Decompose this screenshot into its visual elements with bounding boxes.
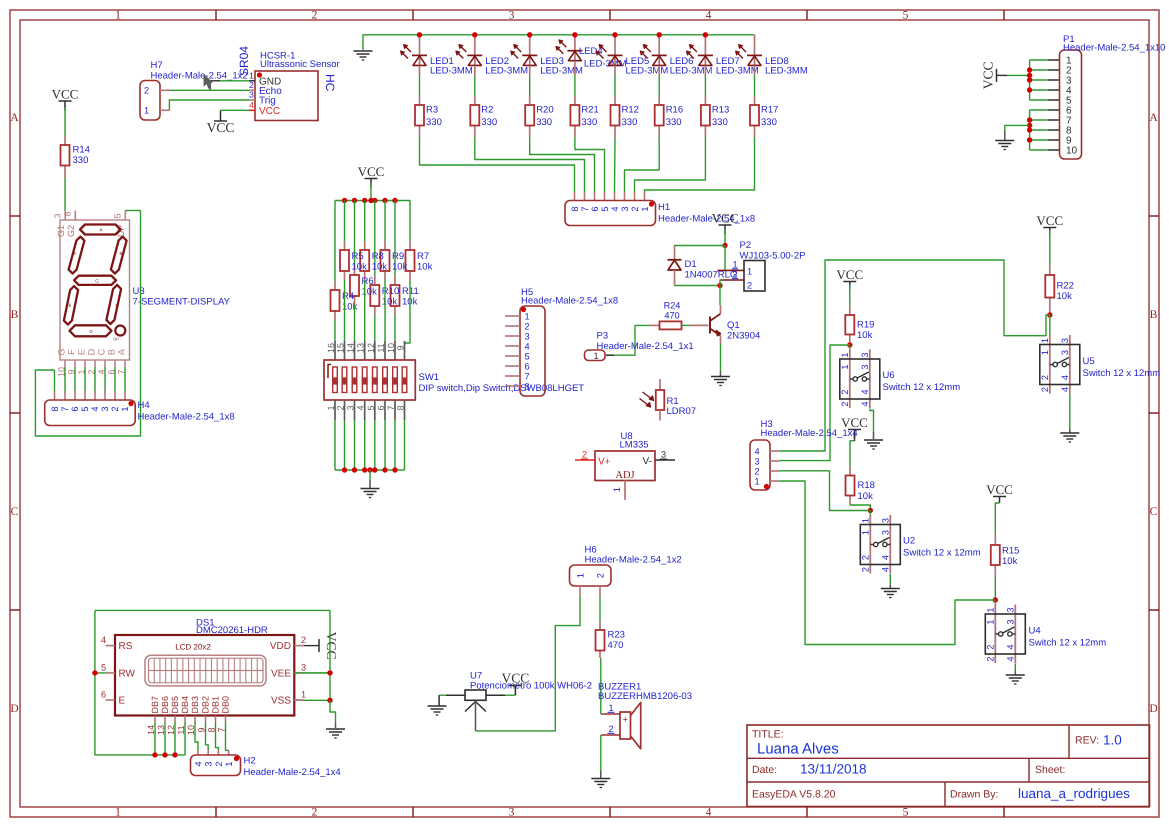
junction dot <box>382 467 387 472</box>
wire VCC to R18 <box>850 441 855 467</box>
svg-text:1.0: 1.0 <box>1103 733 1122 748</box>
svg-text:5: 5 <box>101 662 106 672</box>
svg-text:VCC: VCC <box>502 671 530 686</box>
svg-text:VCC: VCC <box>259 106 280 117</box>
LED LED8 <box>754 35 756 66</box>
svg-text:10k: 10k <box>382 297 398 308</box>
svg-text:2: 2 <box>840 401 850 406</box>
svg-text:1: 1 <box>224 761 234 766</box>
svg-text:2: 2 <box>110 406 120 411</box>
wire R21 to H1 pin 5 <box>575 137 605 192</box>
svg-text:1: 1 <box>608 703 613 713</box>
junction dot <box>1027 127 1032 132</box>
svg-text:Header-Male-2.54_1x4: Header-Male-2.54_1x4 <box>761 428 858 439</box>
svg-text:Switch 12 x 12mm: Switch 12 x 12mm <box>883 382 961 393</box>
svg-text:5: 5 <box>903 10 909 22</box>
switch U5 <box>1049 335 1051 394</box>
junction dot <box>1027 73 1032 78</box>
wire VCC branch to P2 pin 1 <box>724 246 726 271</box>
svg-text:4: 4 <box>860 401 870 406</box>
svg-text:1: 1 <box>860 530 870 535</box>
svg-text:Potenciometro 100k WH06-2: Potenciometro 100k WH06-2 <box>470 681 592 692</box>
svg-text:VSS: VSS <box>271 696 291 707</box>
svg-text:5: 5 <box>113 213 123 218</box>
svg-text:R19: R19 <box>857 320 874 331</box>
svg-text:7: 7 <box>580 206 590 211</box>
wire VCC to R19 <box>849 285 851 306</box>
svg-text:Ultrassonic Sensor: Ultrassonic Sensor <box>260 59 340 70</box>
connector P2 <box>718 269 745 271</box>
svg-text:U5: U5 <box>1083 356 1095 367</box>
svg-text:14: 14 <box>346 343 356 353</box>
wire U7 left to ground <box>438 695 440 705</box>
wire junction to U2 <box>869 511 871 516</box>
LED LED3 <box>529 35 531 66</box>
junction dot <box>1027 77 1032 82</box>
svg-text:1: 1 <box>1040 350 1050 355</box>
svg-text:4: 4 <box>1060 375 1070 380</box>
svg-text:8: 8 <box>63 211 73 216</box>
svg-text:10k: 10k <box>372 262 388 273</box>
power flag VCC (U7) <box>514 686 516 696</box>
svg-text:2N3904: 2N3904 <box>727 331 760 342</box>
svg-text:330: 330 <box>666 117 682 128</box>
svg-text:LED-3MM: LED-3MM <box>430 66 473 77</box>
svg-text:C: C <box>97 348 107 355</box>
junction dot <box>392 467 397 472</box>
wire DB3-DB0 to H2 <box>195 722 198 750</box>
svg-text:Date:: Date: <box>752 764 777 776</box>
svg-text:10k: 10k <box>392 262 408 273</box>
svg-text:8: 8 <box>50 406 60 411</box>
resistor R20 <box>529 65 531 75</box>
switch U4 <box>994 605 996 664</box>
ground (LCD) <box>326 728 345 730</box>
svg-text:3: 3 <box>1060 338 1070 343</box>
svg-text:D: D <box>87 348 97 355</box>
wire R20 to H1 pin 6 <box>530 137 595 192</box>
svg-text:10k: 10k <box>858 491 874 502</box>
svg-text:4: 4 <box>754 447 759 457</box>
ground (buzzer) <box>591 778 610 780</box>
svg-text:DB0: DB0 <box>221 696 231 714</box>
svg-text:R6: R6 <box>362 276 374 287</box>
junction dot <box>362 467 367 472</box>
ground (U5) <box>1060 432 1079 434</box>
ground (P1) <box>995 140 1014 142</box>
svg-text:1: 1 <box>747 267 752 277</box>
switch U2 <box>869 515 871 574</box>
svg-text:2: 2 <box>840 389 850 394</box>
wire SW1 bottom bus <box>335 469 405 471</box>
svg-text:10k: 10k <box>362 287 378 298</box>
junction dot <box>993 597 998 602</box>
resistor R9 <box>384 241 386 250</box>
svg-text:R12: R12 <box>622 105 639 116</box>
wire R3 to H1 pin 8 <box>420 137 575 192</box>
svg-text:VCC: VCC <box>1036 213 1063 228</box>
svg-text:EasyEDA V5.8.20: EasyEDA V5.8.20 <box>752 789 836 801</box>
wire junction to U4 pin 1 <box>994 600 996 605</box>
svg-text:R3: R3 <box>426 105 438 116</box>
LED LED7 <box>704 35 706 66</box>
svg-text:1: 1 <box>120 406 130 411</box>
svg-text:DP: DP <box>113 337 119 342</box>
svg-text:REV:: REV: <box>1075 735 1099 747</box>
svg-text:E: E <box>119 696 126 707</box>
svg-text:RW: RW <box>119 668 136 679</box>
resistor R21 <box>574 61 576 75</box>
svg-text:6: 6 <box>590 206 600 211</box>
junction dot <box>92 670 97 675</box>
junction dot <box>342 198 347 203</box>
svg-text:A: A <box>1149 112 1158 124</box>
svg-text:1: 1 <box>985 607 995 612</box>
switch U6 <box>849 345 851 350</box>
resistor R13 <box>704 65 706 75</box>
svg-text:Header-Male-2.54_1x8: Header-Male-2.54_1x8 <box>521 296 618 307</box>
wire R17 to H1 pin 1 <box>645 137 755 192</box>
junction dot <box>572 32 577 37</box>
power flag VCC (P1) <box>996 69 998 82</box>
svg-text:3: 3 <box>1005 619 1015 624</box>
svg-text:LED-3MM: LED-3MM <box>485 66 528 77</box>
junction dot <box>612 32 617 37</box>
svg-text:H7: H7 <box>151 60 163 71</box>
svg-text:B: B <box>119 251 122 256</box>
resistor R11 <box>394 276 396 285</box>
svg-text:1: 1 <box>840 352 850 357</box>
junction dot <box>352 467 357 472</box>
wire P1 pins 1-5 bus <box>1030 59 1048 61</box>
junction dot <box>1027 67 1032 72</box>
junction dot <box>868 508 873 513</box>
svg-text:3: 3 <box>249 90 254 100</box>
svg-text:2: 2 <box>596 573 606 578</box>
svg-text:330: 330 <box>761 117 777 128</box>
power flag VCC (LCD VDD) <box>318 639 320 652</box>
svg-text:R18: R18 <box>858 480 875 491</box>
svg-text:A: A <box>10 112 19 124</box>
ground (LED bus) <box>354 50 373 52</box>
svg-text:1: 1 <box>576 573 586 578</box>
svg-text:F: F <box>74 251 77 256</box>
svg-text:10k: 10k <box>857 330 873 341</box>
svg-text:2: 2 <box>732 269 737 279</box>
svg-text:5: 5 <box>80 406 90 411</box>
svg-text:R14: R14 <box>73 145 90 156</box>
svg-text:VCC: VCC <box>836 267 863 282</box>
svg-text:Luana Alves: Luana Alves <box>757 741 839 758</box>
svg-text:DB7: DB7 <box>150 696 160 714</box>
svg-text:C: C <box>1150 506 1158 518</box>
svg-text:330: 330 <box>712 117 728 128</box>
svg-text:5: 5 <box>600 206 610 211</box>
svg-text:SW1: SW1 <box>419 372 440 383</box>
resistor R22 <box>1049 265 1051 275</box>
svg-text:11: 11 <box>376 343 386 352</box>
svg-text:DB3: DB3 <box>190 696 200 714</box>
junction dot <box>1027 117 1032 122</box>
wire VCC to R14 <box>64 107 66 136</box>
svg-text:10k: 10k <box>1002 556 1018 567</box>
svg-text:Drawn By:: Drawn By: <box>950 789 998 801</box>
wire junction to U5 pin 1 <box>1049 315 1051 335</box>
junction dot <box>372 467 377 472</box>
svg-text:R20: R20 <box>536 105 553 116</box>
7-segment display U3 <box>64 211 66 221</box>
svg-text:VEE: VEE <box>271 668 291 679</box>
wire bus to ground <box>369 470 371 480</box>
wire junction to H3 pin 3 <box>780 345 850 461</box>
svg-text:10k: 10k <box>352 262 368 273</box>
wire R23 to buzzer pin 1 <box>600 658 602 714</box>
svg-text:U2: U2 <box>903 536 915 547</box>
junction dot <box>362 198 367 203</box>
svg-text:330: 330 <box>536 117 552 128</box>
ground (U2) <box>881 588 900 590</box>
header P3 <box>606 354 614 356</box>
resistor R8 <box>364 241 366 250</box>
svg-text:G1: G1 <box>56 225 66 237</box>
svg-text:DIP switch,Dip Switch,DSWB08LH: DIP switch,Dip Switch,DSWB08LHGET <box>419 383 585 394</box>
svg-text:H2: H2 <box>244 756 256 767</box>
junction dot <box>152 752 157 757</box>
wire bus to R11 <box>394 201 396 277</box>
svg-text:2: 2 <box>1040 375 1050 380</box>
wire bus to R10 <box>374 201 376 277</box>
svg-text:3: 3 <box>509 10 515 22</box>
svg-text:H4: H4 <box>138 400 150 411</box>
svg-text:G: G <box>57 348 67 355</box>
svg-text:BUZZERHMB1206-03: BUZZERHMB1206-03 <box>598 691 692 702</box>
svg-text:10: 10 <box>1066 146 1078 157</box>
svg-text:1: 1 <box>115 807 121 819</box>
svg-text:330: 330 <box>73 155 89 166</box>
resistor R19 <box>849 306 851 315</box>
svg-text:2: 2 <box>985 644 995 649</box>
svg-text:E: E <box>68 303 71 308</box>
svg-text:VCC: VCC <box>986 482 1013 497</box>
wire resistor bank top bus <box>335 200 410 202</box>
junction dot <box>367 467 372 472</box>
LCD display DS1 <box>115 635 294 716</box>
svg-text:+: + <box>623 715 628 725</box>
svg-text:1: 1 <box>985 619 995 624</box>
wire U4 pin 4 to ground <box>1014 664 1016 672</box>
svg-text:Header-Male-2.54_1x8: Header-Male-2.54_1x8 <box>138 412 235 423</box>
svg-text:4: 4 <box>1060 387 1070 392</box>
junction dot <box>657 32 662 37</box>
wire bus to R6 <box>354 201 356 267</box>
svg-text:VDD: VDD <box>270 641 291 652</box>
svg-text:D1: D1 <box>685 259 697 270</box>
svg-text:DB5: DB5 <box>170 696 180 714</box>
svg-text:2: 2 <box>860 567 870 572</box>
svg-text:4: 4 <box>524 342 529 352</box>
wire R7 jog to SW1 pin 9 <box>405 280 411 345</box>
ultrasonic sensor HCSR-1 <box>255 71 318 121</box>
svg-text:U3: U3 <box>133 286 145 297</box>
svg-text:R13: R13 <box>712 105 729 116</box>
resistor R2 <box>474 65 476 75</box>
svg-text:2: 2 <box>608 724 613 734</box>
wire R18 to junction <box>850 505 870 511</box>
svg-text:Header-Male-2.54_1x1: Header-Male-2.54_1x1 <box>597 341 694 352</box>
wire R13 to H1 pin 2 <box>635 137 706 192</box>
wire junction to D1 top <box>675 245 726 248</box>
svg-text:R5: R5 <box>352 251 364 262</box>
junction dot <box>162 752 167 757</box>
svg-text:WJ103-5.00-2P: WJ103-5.00-2P <box>740 251 806 262</box>
svg-text:3: 3 <box>509 807 515 819</box>
svg-text:2: 2 <box>524 322 529 332</box>
wire VCC to P1 bus <box>997 74 1008 76</box>
junction dot <box>392 198 397 203</box>
svg-text:3: 3 <box>754 457 759 467</box>
LED LED1 <box>419 35 421 66</box>
svg-text:Header-Male-2.54_1x2: Header-Male-2.54_1x2 <box>151 71 248 82</box>
svg-text:3: 3 <box>524 332 529 342</box>
svg-text:10k: 10k <box>417 262 433 273</box>
junction dot <box>327 698 332 703</box>
svg-text:4: 4 <box>880 555 890 560</box>
svg-text:R8: R8 <box>372 251 384 262</box>
junction dot <box>722 243 727 248</box>
title block <box>747 725 1150 807</box>
svg-text:VCC: VCC <box>981 62 996 90</box>
svg-text:V-: V- <box>643 456 652 467</box>
photoresistor R1 <box>659 379 661 390</box>
ground (SW1) <box>361 488 380 490</box>
wire Trig to H7 pin 1 <box>160 109 169 111</box>
wire bus to R4 <box>334 201 336 282</box>
wire DB7-DB5 to bottom bus <box>154 722 156 755</box>
wire R24 to P3 <box>614 325 650 355</box>
junction dot <box>342 467 347 472</box>
header H7 <box>140 81 160 121</box>
wire junction to Q1 collector <box>719 286 721 306</box>
svg-text:LM335: LM335 <box>620 440 649 451</box>
junction dot <box>327 670 332 675</box>
svg-text:DMC20261-HDR: DMC20261-HDR <box>196 625 268 636</box>
wire Echo to H7 pin 2 <box>160 89 169 91</box>
svg-text:R24: R24 <box>664 301 681 311</box>
transistor Q1 <box>720 305 722 314</box>
header H1 <box>574 192 576 201</box>
wire VCC pin to flag <box>221 109 250 112</box>
svg-text:5: 5 <box>524 352 529 362</box>
svg-text:D: D <box>1149 703 1157 715</box>
svg-text:330: 330 <box>622 117 638 128</box>
wire D1 bottom to junction <box>675 285 721 287</box>
svg-text:1: 1 <box>732 260 737 270</box>
wire VCC to R22 <box>1049 230 1051 265</box>
LED LED5 <box>614 35 616 66</box>
svg-text:10k: 10k <box>1057 291 1073 302</box>
LED LED6 <box>658 35 660 66</box>
svg-text:3: 3 <box>204 761 214 766</box>
svg-text:U4: U4 <box>1029 626 1041 637</box>
wire SW1 pins to bottom bus <box>334 400 336 420</box>
header H2 <box>191 755 241 776</box>
svg-text:4: 4 <box>610 206 620 211</box>
svg-text:2: 2 <box>1040 387 1050 392</box>
svg-text:1: 1 <box>301 690 306 700</box>
junction dot <box>1047 312 1052 317</box>
resistor R14 <box>64 136 66 145</box>
junction dot <box>372 198 377 203</box>
svg-text:13/11/2018: 13/11/2018 <box>800 762 867 777</box>
svg-text:Header-Male-2.54_1x4: Header-Male-2.54_1x4 <box>244 767 341 778</box>
svg-text:DB2: DB2 <box>201 696 211 714</box>
svg-text:4: 4 <box>880 567 890 572</box>
mouse cursor artifact <box>204 75 212 89</box>
svg-text:1: 1 <box>612 487 622 492</box>
resistor R17 <box>754 65 756 75</box>
ground (Q1) <box>711 376 730 378</box>
svg-text:470: 470 <box>608 640 624 651</box>
svg-text:Q1: Q1 <box>727 320 740 331</box>
svg-text:R16: R16 <box>666 105 683 116</box>
svg-text:Sheet:: Sheet: <box>1035 764 1065 776</box>
svg-text:9: 9 <box>396 345 406 350</box>
svg-text:G: G <box>95 279 99 284</box>
svg-text:4: 4 <box>90 406 100 411</box>
LED LED4 <box>574 35 576 61</box>
svg-text:2: 2 <box>860 555 870 560</box>
svg-text:TITLE:: TITLE: <box>752 729 784 741</box>
svg-text:3: 3 <box>661 450 666 460</box>
svg-text:3: 3 <box>620 206 630 211</box>
svg-text:5: 5 <box>903 807 909 819</box>
wire junction to P2 pin 2 <box>720 280 721 286</box>
wire R16 to H1 pin 3 <box>625 137 660 192</box>
svg-text:B: B <box>11 309 19 321</box>
svg-text:3: 3 <box>301 662 306 672</box>
wire VDD to VCC flag <box>304 645 319 647</box>
svg-text:3: 3 <box>100 406 110 411</box>
wire VCC to bus <box>370 183 372 201</box>
svg-text:LED-3MM: LED-3MM <box>716 66 759 77</box>
svg-text:3: 3 <box>880 530 890 535</box>
svg-text:16: 16 <box>326 343 336 353</box>
svg-text:3: 3 <box>53 213 63 218</box>
svg-text:10: 10 <box>386 343 396 353</box>
temperature sensor U8 LM335 <box>595 451 655 481</box>
svg-text:VCC: VCC <box>358 164 385 179</box>
svg-text:4: 4 <box>249 100 254 110</box>
junction dot <box>703 32 708 37</box>
wire U2 pin 4 to ground <box>889 574 891 585</box>
svg-text:4: 4 <box>706 10 712 22</box>
power flag VCC (HCSR) <box>220 111 222 121</box>
svg-text:F: F <box>67 349 77 355</box>
svg-text:8: 8 <box>570 206 580 211</box>
wire bus to R5 <box>344 201 346 242</box>
svg-text:VCC: VCC <box>207 120 235 135</box>
svg-text:1: 1 <box>860 518 870 523</box>
wire Q1 emitter to ground <box>720 344 722 371</box>
wire VEE to bus <box>294 672 330 674</box>
svg-text:P2: P2 <box>740 240 752 251</box>
DIP switch SW1 <box>334 341 336 360</box>
svg-text:H1: H1 <box>658 202 670 213</box>
svg-text:1: 1 <box>754 477 759 487</box>
wire bus to R7 <box>409 201 411 242</box>
svg-text:B: B <box>107 349 117 355</box>
svg-text:4: 4 <box>101 635 106 645</box>
